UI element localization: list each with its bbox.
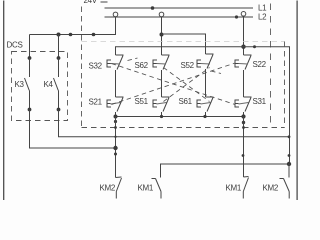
interlock dashed diagonal S32-S31 — [112, 64, 236, 105]
wire KM1 right drop — [243, 117, 245, 178]
blade KM2L — [116, 178, 121, 192]
svg-text:S31: S31 — [253, 97, 267, 106]
blade K3 — [25, 78, 30, 90]
contactor contact KM2 right — [263, 164, 290, 199]
small dot on bus b — [92, 33, 96, 37]
wire L1 line — [105, 7, 254, 9]
small dot on feed line — [253, 45, 256, 48]
tick KM2L — [116, 176, 122, 179]
blade S32 — [117, 56, 123, 70]
junction dot node D — [241, 45, 245, 49]
svg-text:KM2: KM2 — [100, 184, 116, 193]
contactor contact KM2 left — [100, 177, 122, 199]
actuator E S51 — [153, 100, 157, 107]
limit switch S32 — [89, 55, 124, 97]
link S21 — [111, 103, 121, 105]
wire long horizontal S32 feed line — [116, 47, 290, 164]
wire S62 lower — [161, 70, 163, 97]
svg-text:24V: 24V — [84, 0, 98, 5]
svg-text:L2: L2 — [258, 13, 267, 22]
big dashed enclosure bottom edge — [82, 127, 285, 129]
link S31 — [239, 103, 249, 105]
wire branch to S52 top — [162, 34, 206, 54]
limit switch S21 — [89, 97, 124, 117]
contactor contact KM1 left — [138, 179, 162, 199]
limit switch S22 — [235, 55, 267, 97]
wire K4 bottom bus to right — [59, 110, 290, 137]
interlock stub near S62 label — [128, 58, 138, 61]
wire K3 bottom line — [30, 110, 116, 149]
interlock dashed diagonal S21-S22 — [112, 63, 236, 105]
svg-text:S21: S21 — [89, 98, 103, 107]
junction dot K3 line end — [113, 146, 117, 150]
junction dot S31 bottom — [241, 114, 245, 118]
limit switch S61 — [179, 97, 214, 117]
wire S51 lower — [161, 112, 163, 117]
big dashed enclosure left edge — [81, 7, 83, 128]
wire KM2R upper from node — [288, 164, 290, 178]
tick KM2R — [280, 178, 284, 180]
wire KM2L lower — [115, 192, 117, 199]
DCS dashed box — [12, 52, 68, 121]
wire S52 lower — [205, 69, 207, 97]
svg-text:S51: S51 — [135, 97, 149, 106]
wire KM1R lower — [242, 192, 244, 199]
blade KM1R — [243, 178, 248, 192]
wire lower bus of switch column — [116, 116, 244, 118]
interlock dashed diagonal S51-S52 — [164, 68, 210, 102]
wire K4 feed drop — [58, 35, 60, 58]
dot K3 top — [28, 56, 32, 60]
blade S52 — [207, 55, 213, 69]
actuator E S22 — [235, 60, 239, 67]
border frame right — [296, 1, 298, 201]
contactor contact KM1 right — [226, 177, 249, 199]
actuator E S61 — [197, 100, 201, 107]
tick S51 — [162, 96, 170, 98]
junction dot node B — [160, 33, 164, 37]
wire S32 lower — [115, 70, 117, 97]
svg-text:K3: K3 — [15, 80, 25, 89]
link S32 — [111, 63, 121, 66]
svg-text:K4: K4 — [44, 80, 54, 89]
junction dot S51 bottom — [160, 115, 163, 118]
svg-text:S62: S62 — [135, 61, 149, 70]
tiny dot KM2 left drop crossing K4 line — [114, 136, 116, 138]
connector circle node 3 on L2 — [241, 12, 246, 17]
wire S31 lower — [243, 112, 245, 117]
wire K3 feed drop — [29, 35, 31, 58]
small dot below K3 junction — [114, 153, 117, 156]
junction dot KM2 right node — [287, 162, 291, 166]
svg-text:KM2: KM2 — [263, 184, 279, 193]
actuator E S52 — [197, 60, 201, 67]
blade S22 — [245, 56, 251, 70]
node dot on L2 — [235, 15, 238, 18]
link S62 — [157, 63, 167, 66]
junction dot S21 bottom — [114, 115, 118, 119]
wire L2 line — [105, 16, 254, 18]
dot at dashed crossing left — [114, 126, 117, 129]
blade KM1L — [156, 179, 162, 192]
tick S32 — [116, 54, 124, 56]
wire S22 lower — [243, 70, 245, 97]
blade K4 — [54, 78, 59, 90]
blade KM2R — [284, 179, 290, 192]
node dot on L1 — [151, 6, 155, 10]
wire drop from circle3 — [243, 16, 245, 55]
limit switch S62 — [135, 55, 170, 97]
small dot on bus a — [69, 33, 73, 37]
blade S61 — [207, 98, 213, 112]
svg-text:L1: L1 — [258, 3, 267, 12]
actuator E S21 — [107, 100, 111, 107]
wire KM2R lower — [288, 192, 290, 199]
tick S52 — [206, 53, 214, 55]
junction dot K4 line end — [288, 135, 291, 138]
wire K4 lower — [58, 90, 60, 109]
limit switch S52 — [181, 54, 214, 97]
relay contact K3 — [15, 56, 32, 111]
limit switch S51 — [135, 97, 170, 117]
border frame left — [3, 1, 5, 201]
tick KM1R — [244, 176, 249, 179]
junction dot K4 feed — [57, 33, 61, 37]
tick KM1L — [152, 178, 156, 180]
blade S31 — [245, 98, 251, 112]
svg-text:S61: S61 — [179, 97, 193, 106]
wire KM1 left feed line — [161, 164, 290, 178]
small dot below S31 junction — [242, 121, 245, 124]
svg-text:KM1: KM1 — [226, 184, 242, 193]
small dot below S21 junction — [114, 120, 117, 123]
connector circle node 2 on L2 — [159, 12, 164, 17]
wire drop from circle1 to DCS bus — [30, 17, 116, 35]
interlock dashed diagonal S62-S61 — [164, 68, 210, 102]
actuator E S32 — [107, 60, 111, 67]
link S51 — [157, 103, 167, 105]
tick S22 — [244, 54, 252, 56]
wire S61 lower — [205, 112, 207, 117]
actuator E S62 — [153, 60, 157, 67]
svg-text:KM1: KM1 — [138, 184, 154, 193]
big dashed enclosure top edge — [82, 41, 285, 43]
big dashed enclosure right edge — [284, 42, 286, 128]
blade S51 — [163, 98, 169, 112]
blade S62 — [163, 56, 169, 70]
connector circle node 1 on L2 — [113, 12, 118, 17]
svg-text:S22: S22 — [253, 60, 267, 69]
dot K4 bottom — [57, 108, 61, 112]
tick S61 — [206, 96, 214, 98]
svg-text:S32: S32 — [89, 62, 103, 71]
wire K3 upper — [29, 58, 31, 77]
small dot on KM2 right drop — [288, 154, 291, 157]
dot K4 top — [57, 56, 61, 60]
tick after 24V — [101, 1, 108, 3]
junction dot S61 bottom — [203, 115, 206, 118]
wire KM1L lower — [160, 192, 162, 199]
link S52 — [201, 63, 211, 66]
link S22 — [239, 63, 249, 66]
tick S21 — [116, 96, 124, 98]
svg-text:S52: S52 — [181, 61, 195, 70]
wire K3 lower — [29, 90, 31, 109]
interlock stub right of S52 — [211, 71, 221, 74]
dot at dashed crossing right — [242, 126, 245, 129]
relay contact K4 — [44, 56, 61, 111]
actuator E S31 — [235, 100, 239, 107]
tick S31 — [244, 96, 252, 98]
tick S62 — [162, 54, 170, 56]
dot K3 bottom — [28, 108, 32, 112]
link S61 — [201, 103, 211, 105]
wire K4 upper — [58, 58, 60, 77]
small dot on KM1 right drop — [242, 154, 245, 157]
svg-text:DCS: DCS — [7, 41, 23, 50]
wire KM2 left drop — [115, 117, 117, 178]
blade S21 — [117, 98, 123, 112]
wire S21 lower — [115, 112, 117, 117]
wire drop from circle2 — [161, 17, 163, 55]
limit switch S31 — [235, 97, 267, 117]
dashed boundary right of L1 L2 — [270, 4, 272, 128]
